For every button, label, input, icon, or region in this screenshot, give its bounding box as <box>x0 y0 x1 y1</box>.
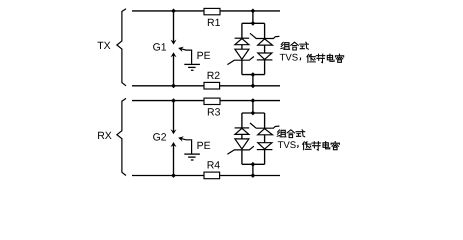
wire TVS right branch upper lead (RX) <box>264 113 266 128</box>
node TVS bottom connector junction (RX) <box>251 162 256 167</box>
wire TVS right branch middle (TX) <box>264 45 266 53</box>
svg-text:R4: R4 <box>207 160 221 172</box>
wire RX top line <box>132 100 280 102</box>
svg-text:G1: G1 <box>153 42 167 54</box>
wire TX bottom line <box>132 85 280 87</box>
PE arrow lead wire <box>179 138 191 154</box>
wire TVS top connector (RX) <box>242 112 265 114</box>
wire RX bottom line <box>132 175 280 177</box>
annotation line 1: zu-he-shi (combined type) (RX) <box>277 130 286 137</box>
TVS diode D2 zener down (TX left bottom) <box>235 49 249 59</box>
svg-text:G2: G2 <box>153 131 167 143</box>
resistor R4 <box>204 172 220 179</box>
annotation line 1: zu-he-shi (combined type) (TX) <box>281 42 290 49</box>
wire TVS right branch lower lead (RX) <box>264 150 266 165</box>
node RX top junction at G2 <box>171 98 176 103</box>
ground PE of G1 <box>184 63 200 65</box>
diode D4 steering down (RX right bottom) <box>258 143 272 149</box>
brace for RX pair <box>117 98 126 175</box>
ground PE of G2 <box>184 153 200 155</box>
PE arrow lead wire <box>179 48 191 64</box>
diode D1 steering up (TX left top) <box>235 37 250 39</box>
diode D4 steering down (TX right bottom) <box>258 53 272 59</box>
node TX bottom junction at TVS network <box>251 83 256 88</box>
svg-text:R3: R3 <box>207 107 221 119</box>
svg-text:R1: R1 <box>207 17 221 29</box>
resistor R3 <box>204 98 220 104</box>
surge arrester G1 lower electrode <box>173 54 175 86</box>
wire TVS top connector (TX) <box>242 22 265 24</box>
svg-text:R2: R2 <box>207 70 221 82</box>
svg-text:TX: TX <box>97 40 110 52</box>
diode D1 steering up (RX left top) <box>235 127 250 129</box>
surge arrester G2 lower electrode <box>173 144 175 176</box>
resistor R2 <box>204 82 220 89</box>
node TX bottom junction at G1 <box>171 83 176 88</box>
node RX bottom junction at TVS network <box>251 173 256 178</box>
wire TVS right branch middle (RX) <box>264 135 266 143</box>
wire TVS right branch upper lead (TX) <box>264 23 266 38</box>
wire TVS top stub (RX) <box>252 101 254 113</box>
node TX top junction at TVS network <box>251 9 256 14</box>
TVS diode D3 zener up (TX right top) <box>250 33 279 38</box>
wire TVS right branch lower lead (TX) <box>264 60 266 75</box>
brace for TX pair <box>117 9 126 86</box>
surge arrester G2 upper electrode <box>173 101 175 133</box>
svg-text:PE: PE <box>197 50 211 62</box>
node TVS top connector junction (TX) <box>251 21 256 26</box>
surge arrester G1 upper electrode <box>173 11 175 43</box>
svg-text:RX: RX <box>97 130 112 142</box>
wire TVS left branch upper lead (RX) <box>241 113 243 128</box>
node TX top junction at G1 <box>171 9 176 14</box>
resistor R1 <box>204 8 220 14</box>
wire TVS left branch lower lead (RX) <box>241 150 243 164</box>
wire TVS bottom stub (RX) <box>252 164 254 175</box>
svg-text:TVS: TVS <box>278 140 297 151</box>
wire TVS bottom connector (TX) <box>242 74 265 76</box>
wire TVS bottom connector (RX) <box>242 163 265 165</box>
node TVS top connector junction (RX) <box>251 111 256 116</box>
wire TX top line <box>132 10 280 12</box>
wire TVS left branch lower lead (TX) <box>241 60 243 74</box>
node TVS bottom connector junction (TX) <box>251 72 256 77</box>
TVS diode D2 zener down (RX left bottom) <box>235 139 249 149</box>
wire TVS left branch middle (RX) <box>241 134 243 139</box>
svg-text:TVS: TVS <box>280 53 299 64</box>
wire TVS left branch upper lead (TX) <box>241 23 243 38</box>
node RX top junction at TVS network <box>251 98 256 103</box>
TVS diode D3 zener up (RX right top) <box>250 123 279 128</box>
wire TVS top stub (TX) <box>252 11 254 23</box>
wire TVS bottom stub (TX) <box>252 75 254 86</box>
node RX bottom junction at G2 <box>171 173 176 178</box>
wire TVS left branch middle (TX) <box>241 45 243 50</box>
svg-text:PE: PE <box>197 140 211 152</box>
